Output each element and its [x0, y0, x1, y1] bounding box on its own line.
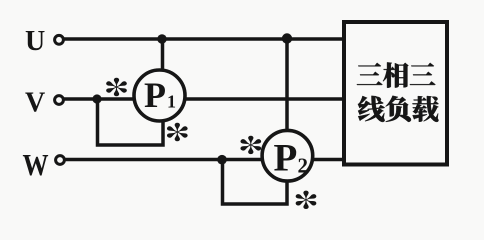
load text char 三 (1)	[357, 63, 383, 85]
svg-text:1: 1	[167, 92, 176, 112]
svg-text:U: U	[25, 26, 45, 57]
node V junction	[92, 94, 101, 103]
wire P2 voltage-coil loop	[223, 160, 288, 205]
wire U node to P2 top	[285, 39, 289, 134]
load text char 线	[358, 96, 385, 122]
svg-text:V: V	[25, 88, 45, 119]
wattmeter P1	[134, 70, 185, 121]
svg-text:P: P	[144, 75, 166, 115]
node W junction	[217, 155, 227, 165]
wire U	[63, 37, 343, 41]
node U-P2 junction	[282, 33, 292, 43]
svg-text:2: 2	[298, 153, 309, 177]
wire W	[65, 158, 343, 162]
polarity mark P1 voltage side	[106, 78, 127, 96]
wire P1 voltage-coil loop	[98, 99, 164, 145]
wire V	[64, 97, 343, 101]
wattmeter P2	[262, 130, 313, 181]
polarity mark P1 current side	[167, 123, 188, 141]
polarity mark P2 voltage side	[240, 136, 261, 154]
svg-text:W: W	[23, 148, 49, 183]
svg-text:P: P	[274, 137, 298, 180]
node U-P1 junction	[157, 34, 166, 43]
wire U node to P1 top	[161, 39, 165, 72]
terminal W	[56, 156, 65, 165]
load text char 相	[383, 62, 409, 87]
terminal V	[55, 96, 64, 105]
load text char 三 (2)	[410, 63, 436, 85]
polarity mark P2 current side	[296, 191, 317, 209]
label W	[23, 148, 49, 183]
terminal U	[55, 35, 64, 44]
load text char 载	[412, 96, 438, 122]
load box	[344, 22, 447, 165]
load text char 负	[386, 96, 411, 122]
